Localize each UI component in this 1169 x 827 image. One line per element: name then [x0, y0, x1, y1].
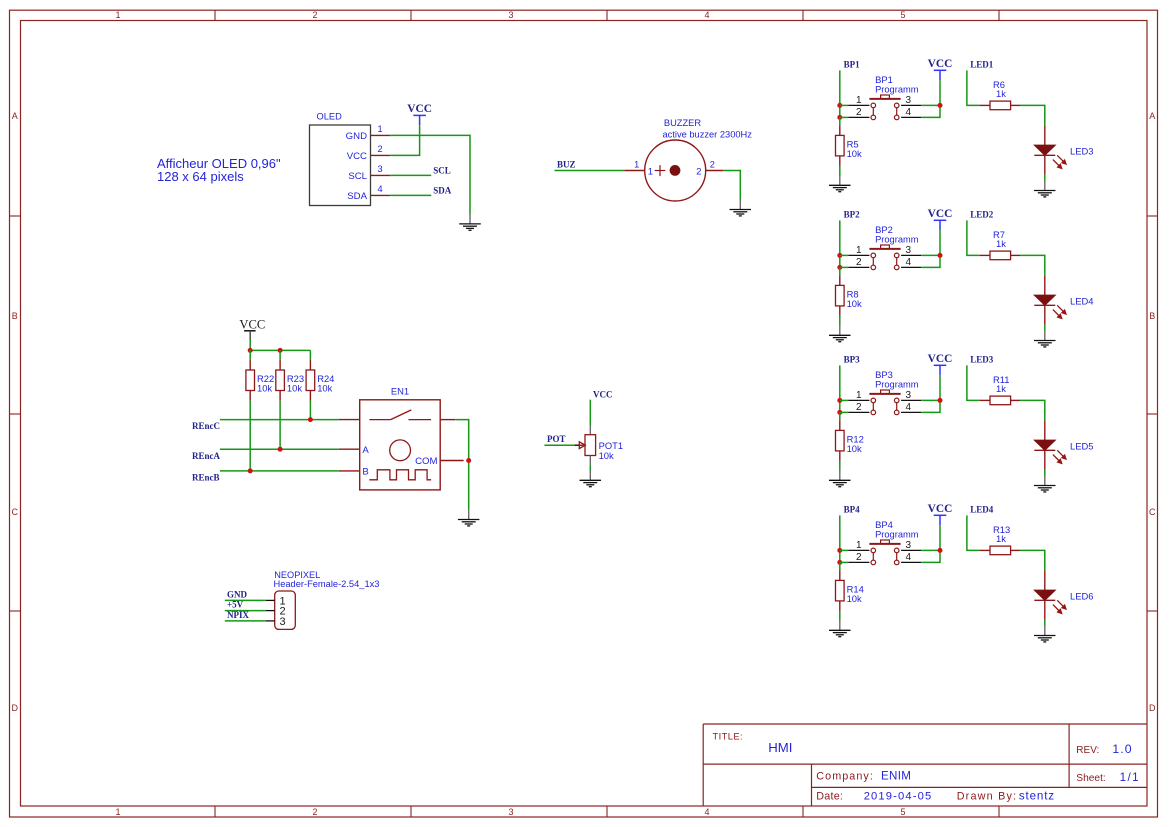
wire LED6 to ground: [1044, 620, 1046, 626]
svg-text:2019-04-05: 2019-04-05: [864, 791, 933, 803]
svg-text:3: 3: [906, 390, 912, 401]
svg-text:D: D: [1149, 703, 1156, 713]
svg-text:3: 3: [906, 540, 912, 551]
svg-text:2: 2: [312, 10, 317, 20]
NEOPIXEL pin 2 line: [266, 610, 275, 612]
connector NEOPIXEL body: [275, 591, 296, 629]
svg-text:LED3: LED3: [1070, 146, 1093, 157]
resistor R14 10k (BP4 pull-down): [836, 570, 845, 611]
OLED pin 2 VCC stub: [371, 154, 391, 156]
ground encoder COM: [458, 510, 480, 526]
svg-text:Sheet:: Sheet:: [1076, 773, 1105, 784]
BP1 contact circles right: [894, 103, 899, 120]
svg-text:GND: GND: [227, 590, 248, 600]
svg-text:2: 2: [856, 402, 862, 413]
BP2 pin 2 line: [848, 266, 869, 268]
wire net REncB: [220, 470, 339, 472]
svg-text:5: 5: [900, 10, 905, 20]
resistor R6 1k (series): [980, 101, 1020, 110]
wire OLED SDA: [390, 194, 431, 196]
wire BP4 pin3 to VCC rail: [921, 549, 940, 551]
ground R5: [829, 175, 851, 191]
ground LED6: [1034, 626, 1056, 642]
svg-text:4: 4: [906, 257, 912, 268]
EN1 pin A stub: [339, 448, 360, 450]
EN1 knob circle: [390, 440, 411, 461]
title block outline: [703, 724, 1147, 806]
LED LED5 emission arrows: [1053, 450, 1066, 463]
BP1 contact circles left: [871, 103, 876, 120]
svg-text:VCC: VCC: [928, 208, 953, 220]
svg-text:SCL: SCL: [348, 171, 367, 182]
junction BP2 row1 left: [837, 253, 842, 258]
svg-text:4: 4: [704, 807, 709, 817]
svg-text:1k: 1k: [996, 88, 1006, 99]
buzzer center dot: [670, 165, 681, 176]
wire VCC to POT1 top: [589, 400, 591, 426]
BP3 pin 3 line: [901, 399, 921, 401]
svg-text:B: B: [362, 467, 368, 478]
BP1 pin 2 line: [848, 116, 869, 118]
wire POT to wiper: [544, 444, 575, 446]
svg-text:POT: POT: [547, 434, 566, 444]
BP4 pin 4 line: [901, 561, 921, 563]
power symbol VCC (BP4): [928, 503, 953, 525]
wire R22 top pin drop: [249, 350, 251, 360]
ground R8: [829, 325, 851, 341]
svg-text:Header-Female-2.54_1x3: Header-Female-2.54_1x3: [274, 579, 380, 589]
wire BP1 pin2 to net: [840, 116, 849, 118]
junction BP2 VCC rail: [938, 253, 943, 258]
BP3 pin 2 line: [848, 411, 869, 413]
svg-text:10k: 10k: [847, 593, 862, 604]
wire BP1 pin3 to VCC rail: [921, 104, 940, 106]
wire BP4 net vertical: [839, 515, 841, 562]
POT1 top pin: [589, 426, 591, 435]
junction R24/REncC: [308, 417, 313, 422]
junction COM to ground rail: [466, 458, 471, 463]
svg-text:BUZZER: BUZZER: [664, 118, 701, 128]
svg-text:REncB: REncB: [192, 473, 220, 483]
power symbol VCC (encoder, black): [239, 318, 265, 349]
EN1 pin COM stub: [440, 460, 463, 462]
BP1 pin 4 line: [901, 116, 921, 118]
wire BP4 pin1 to net: [840, 549, 849, 551]
svg-text:LED2: LED2: [970, 210, 994, 220]
NEOPIXEL pin 3 line: [266, 620, 275, 622]
ground buzzer: [730, 200, 752, 216]
BP3 contact circles right: [894, 398, 899, 415]
svg-text:4: 4: [906, 402, 912, 413]
svg-text:EN1: EN1: [391, 386, 409, 397]
svg-text:Company:: Company:: [816, 771, 874, 783]
BP3 contact circles left: [871, 398, 876, 415]
wire BP3 pin1 to net: [840, 399, 849, 401]
column tick marks top: [214, 10, 216, 20]
svg-text:1/1: 1/1: [1120, 771, 1140, 784]
junction BP4 VCC rail: [938, 548, 943, 553]
svg-text:1: 1: [856, 540, 862, 551]
svg-text:3: 3: [508, 10, 513, 20]
svg-text:1: 1: [856, 390, 862, 401]
ground LED4: [1034, 331, 1056, 347]
svg-text:2: 2: [856, 552, 862, 563]
svg-text:1: 1: [648, 167, 653, 178]
resistor R23 10k (pull-up B): [276, 360, 285, 401]
svg-text:VCC: VCC: [928, 353, 953, 365]
junction VCC bus at R22: [248, 348, 253, 353]
wire BP3 pin3 to VCC rail: [921, 399, 940, 401]
resistor R22 10k (pull-up A): [246, 360, 255, 401]
svg-text:ENIM: ENIM: [881, 770, 911, 783]
svg-text:10k: 10k: [317, 383, 332, 394]
wire BP1 net vertical: [839, 70, 841, 117]
ground POT1: [580, 470, 602, 486]
resistor R11 1k (series): [980, 396, 1020, 405]
junction R23/REncA: [278, 447, 283, 452]
svg-text:3: 3: [280, 616, 286, 628]
BP2 contact circles left: [871, 253, 876, 270]
svg-text:10k: 10k: [599, 450, 614, 461]
ground LED5: [1034, 476, 1056, 492]
resistor R8 10k (BP2 pull-down): [836, 275, 845, 316]
row tick marks right: [1147, 215, 1158, 217]
svg-text:REV:: REV:: [1076, 745, 1099, 756]
svg-text:Programm: Programm: [875, 529, 919, 539]
svg-text:COM: COM: [415, 456, 437, 467]
rotary encoder EN1 body: [360, 400, 441, 490]
junction BP1 row2 left: [837, 115, 842, 120]
svg-text:BUZ: BUZ: [557, 160, 576, 170]
resistor R13 1k (series): [980, 546, 1020, 555]
svg-text:BP4: BP4: [844, 505, 861, 515]
NEOPIXEL pin 1 line: [266, 599, 275, 601]
wire R22 bottom to REncB: [249, 401, 251, 471]
svg-text:GND: GND: [346, 131, 367, 142]
svg-text:LED6: LED6: [1070, 591, 1093, 602]
BP4 pin 2 line: [848, 561, 869, 563]
svg-text:C: C: [1149, 507, 1156, 517]
svg-text:SDA: SDA: [433, 185, 452, 195]
BP4 contact circles left: [871, 548, 876, 565]
wire LED2 to R7: [967, 220, 980, 255]
wire BP4 row2 to R14: [839, 562, 841, 570]
svg-text:A: A: [362, 445, 369, 456]
wire VCC to BP2 pins 3/4: [921, 230, 940, 267]
wire net REncC: [220, 419, 339, 421]
LED LED4 emission arrows: [1053, 305, 1066, 318]
wire BP3 row2 to R12: [839, 412, 841, 420]
push button BP3 actuator bar: [869, 390, 900, 394]
buzzer plus polarity mark: [655, 165, 666, 176]
BP2 contact circles right: [894, 253, 899, 270]
svg-text:LED5: LED5: [1070, 441, 1093, 452]
POT1 bottom pin: [589, 456, 591, 466]
wire net NPIX: [225, 620, 266, 622]
svg-text:+5V: +5V: [227, 600, 244, 610]
POT1 wiper arrow: [575, 442, 585, 449]
wire R11 to LED5: [1020, 400, 1045, 420]
svg-text:LED4: LED4: [970, 505, 994, 515]
junction BP1 VCC rail: [938, 103, 943, 108]
svg-text:SCL: SCL: [433, 165, 451, 175]
wire BP2 pin3 to VCC rail: [921, 254, 940, 256]
wire net REncA: [220, 448, 339, 450]
EN1 switch output pin stub right: [440, 419, 455, 421]
wire OLED SCL: [390, 174, 431, 176]
ground R14: [829, 620, 851, 636]
svg-text:B: B: [12, 311, 18, 321]
OLED pin 1 GND stub: [371, 134, 391, 136]
wire LED4 to ground: [1044, 325, 1046, 331]
svg-text:4: 4: [906, 552, 912, 563]
svg-text:stentz: stentz: [1019, 790, 1055, 803]
svg-text:BP3: BP3: [844, 355, 861, 365]
wire BP1 row2 to R5: [839, 117, 841, 125]
svg-text:2: 2: [696, 167, 701, 178]
LED LED4: [1034, 275, 1055, 324]
ground LED3: [1034, 181, 1056, 197]
svg-text:128 x 64 pixels: 128 x 64 pixels: [157, 169, 244, 184]
junction BP3 row1 left: [837, 398, 842, 403]
wire R24 bottom to REncC: [309, 401, 311, 420]
push button BP1 actuator bar: [869, 95, 900, 99]
wire VCC to BP1 pins 3/4: [921, 80, 940, 117]
svg-text:2: 2: [378, 144, 383, 154]
svg-text:1: 1: [856, 95, 862, 106]
svg-text:B: B: [1149, 311, 1155, 321]
resistor R24 10k (pull-up C): [306, 360, 315, 401]
svg-text:1: 1: [856, 245, 862, 256]
wire R7 to LED4: [1020, 255, 1045, 275]
wire POT1 bottom to ground: [589, 466, 591, 471]
svg-text:BP1: BP1: [844, 60, 861, 70]
svg-text:10k: 10k: [257, 383, 272, 394]
svg-text:2: 2: [856, 257, 862, 268]
BP3 pin 1 line: [848, 399, 869, 401]
BP2 pin 3 line: [901, 254, 921, 256]
junction BP4 row1 left: [837, 548, 842, 553]
svg-text:4: 4: [378, 184, 383, 194]
wire EN1 switch to ground rail: [455, 420, 469, 510]
svg-text:1k: 1k: [996, 238, 1006, 249]
svg-text:Programm: Programm: [875, 84, 919, 94]
ground R12: [829, 470, 851, 486]
wire LED3 to R11: [967, 365, 980, 400]
resistor R12 10k (BP3 pull-down): [836, 420, 845, 461]
svg-text:Date:: Date:: [816, 791, 843, 803]
power symbol VCC (OLED): [407, 103, 432, 125]
OLED pin 4 SDA stub: [371, 194, 391, 196]
svg-text:A: A: [12, 111, 18, 121]
svg-text:VCC: VCC: [407, 103, 432, 115]
wire buzzer pin 2 to ground: [723, 171, 740, 200]
svg-text:VCC: VCC: [239, 318, 265, 332]
wire BP4 pin2 to net: [840, 561, 849, 563]
wire R8 to ground: [839, 316, 841, 326]
ground OLED GND: [459, 214, 481, 230]
wire net GND: [225, 599, 266, 601]
LED LED5: [1034, 420, 1055, 469]
wire OLED GND to ground: [390, 135, 470, 214]
column tick marks bottom: [214, 806, 216, 817]
svg-text:4: 4: [906, 107, 912, 118]
svg-text:active buzzer 2300Hz: active buzzer 2300Hz: [663, 130, 753, 140]
power symbol VCC (BP3): [928, 353, 953, 375]
wire R13 to LED6: [1020, 550, 1045, 570]
svg-text:10k: 10k: [847, 298, 862, 309]
svg-text:REncA: REncA: [192, 451, 221, 461]
EN1 switch symbol: [369, 410, 431, 420]
buzzer pin 1 stub: [624, 170, 644, 172]
svg-text:1: 1: [115, 807, 120, 817]
BP4 contact circles right: [894, 548, 899, 565]
svg-text:1: 1: [115, 10, 120, 20]
svg-text:OLED: OLED: [317, 112, 343, 122]
buzzer BZ1 body circle: [645, 140, 706, 201]
power symbol VCC (BP1): [928, 58, 953, 80]
svg-text:3: 3: [906, 245, 912, 256]
EN1 pin C stub (switch): [339, 419, 360, 421]
OLED pin 3 SCL stub: [371, 174, 391, 176]
row tick marks left: [10, 215, 21, 217]
wire BP2 row2 to R8: [839, 267, 841, 275]
svg-text:5: 5: [900, 807, 905, 817]
EN1 pin B stub: [339, 470, 360, 472]
junction VCC bus at R23: [278, 348, 283, 353]
junction BP2 row2 left: [837, 265, 842, 270]
svg-text:BP2: BP2: [844, 210, 861, 220]
wire BP3 net vertical: [839, 365, 841, 412]
svg-text:TITLE:: TITLE:: [713, 732, 744, 742]
wire R12 to ground: [839, 461, 841, 471]
svg-text:2: 2: [710, 160, 715, 170]
LED LED6 emission arrows: [1053, 600, 1066, 613]
svg-text:3: 3: [906, 95, 912, 106]
wire BP2 net vertical: [839, 220, 841, 267]
svg-text:REncC: REncC: [192, 421, 220, 431]
svg-text:LED4: LED4: [1070, 296, 1093, 307]
BP1 pin 3 line: [901, 104, 921, 106]
wire R6 to LED3: [1020, 105, 1045, 125]
svg-text:SDA: SDA: [347, 191, 367, 202]
wire R24 top pin drop: [309, 350, 311, 360]
push button BP2 actuator bar: [869, 245, 900, 249]
potentiometer POT1 body: [585, 435, 596, 456]
junction BP1 row1 left: [837, 103, 842, 108]
svg-text:NPIX: NPIX: [227, 610, 249, 620]
svg-text:10k: 10k: [847, 443, 862, 454]
junction BP3 VCC rail: [938, 398, 943, 403]
svg-text:Programm: Programm: [875, 379, 919, 389]
push button BP4 actuator bar: [869, 540, 900, 544]
svg-text:3: 3: [378, 164, 383, 174]
wire LED4 to R13: [967, 515, 980, 550]
wire VCC bus to pull-up resistors: [250, 349, 310, 351]
svg-text:10k: 10k: [847, 148, 862, 159]
LED LED6: [1034, 570, 1055, 619]
EN1 quadrature waveform symbol: [369, 470, 431, 480]
wire BP2 pin1 to net: [840, 254, 849, 256]
wire LED1 to R6: [967, 70, 980, 105]
wire BP1 pin1 to net: [840, 104, 849, 106]
svg-text:1.0: 1.0: [1112, 742, 1132, 756]
svg-text:4: 4: [704, 10, 709, 20]
junction BP3 row2 left: [837, 410, 842, 415]
junction BP4 row2 left: [837, 560, 842, 565]
wire LED3 to ground: [1044, 175, 1046, 181]
LED LED3 emission arrows: [1053, 155, 1066, 168]
svg-text:1: 1: [634, 160, 639, 170]
svg-text:3: 3: [508, 807, 513, 817]
svg-text:LED3: LED3: [970, 355, 994, 365]
svg-text:VCC: VCC: [593, 390, 613, 400]
wire net +5V: [225, 610, 266, 612]
resistor R7 1k (series): [980, 251, 1020, 260]
svg-text:10k: 10k: [287, 383, 302, 394]
connector OLED body: [310, 125, 371, 206]
svg-text:Programm: Programm: [875, 234, 919, 244]
svg-text:1k: 1k: [996, 383, 1006, 394]
svg-text:1k: 1k: [996, 533, 1006, 544]
svg-text:2: 2: [312, 807, 317, 817]
BP1 pin 1 line: [848, 104, 869, 106]
wire R5 to ground: [839, 166, 841, 176]
svg-text:1: 1: [378, 124, 383, 134]
BP2 pin 1 line: [848, 254, 869, 256]
wire BUZ to buzzer pin 1: [555, 170, 625, 172]
LED LED3: [1034, 125, 1055, 174]
wire VCC to BP4 pins 3/4: [921, 525, 940, 562]
BP2 pin 4 line: [901, 266, 921, 268]
wire VCC to BP3 pins 3/4: [921, 375, 940, 412]
BP4 pin 3 line: [901, 549, 921, 551]
svg-text:LED1: LED1: [970, 60, 994, 70]
BP4 pin 1 line: [848, 549, 869, 551]
svg-text:C: C: [12, 507, 19, 517]
junction R22/REncB: [248, 468, 253, 473]
svg-text:VCC: VCC: [347, 151, 367, 162]
svg-text:VCC: VCC: [928, 503, 953, 515]
wire BP2 pin2 to net: [840, 266, 849, 268]
svg-text:A: A: [1149, 111, 1155, 121]
wire R14 to ground: [839, 611, 841, 621]
buzzer pin 2 stub: [706, 170, 723, 172]
svg-text:VCC: VCC: [928, 58, 953, 70]
BP3 pin 4 line: [901, 411, 921, 413]
resistor R5 10k (BP1 pull-down): [836, 125, 845, 165]
wire R23 bottom to REncA: [279, 401, 281, 450]
wire VCC to OLED pin 2: [390, 125, 419, 155]
svg-text:Drawn By:: Drawn By:: [957, 791, 1018, 803]
svg-text:2: 2: [856, 107, 862, 118]
wire LED5 to ground: [1044, 470, 1046, 476]
svg-text:HMI: HMI: [768, 740, 792, 755]
wire BP3 pin2 to net: [840, 411, 849, 413]
power symbol VCC (BP2): [928, 208, 953, 230]
svg-text:D: D: [12, 703, 19, 713]
wire R23 top pin drop: [279, 350, 281, 360]
